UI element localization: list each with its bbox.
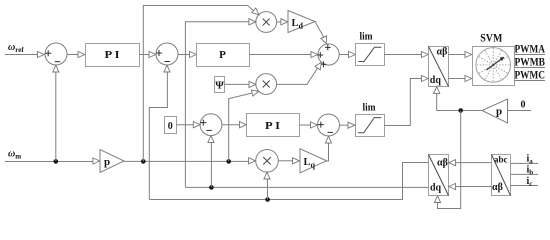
multiplier M2 (ωe x psi) [256, 74, 277, 95]
wire P to J3 [249, 54, 311, 56]
arrowhead angle into top block bottom [434, 87, 440, 94]
wire p2 output angle line [437, 110, 482, 112]
wire 0 to p2 [508, 110, 532, 112]
svg-text:SVM: SVM [480, 31, 502, 45]
block dq to alpha-beta (top) [429, 47, 449, 87]
svg-text:PWMA: PWMA [515, 42, 546, 56]
wire 0 to J4 [177, 124, 194, 126]
block PI2 current regulator [247, 114, 300, 137]
wire ωe line [124, 160, 249, 162]
wire M1 to Ld [277, 21, 282, 23]
wire J3 to lim1 [339, 54, 349, 56]
junction dot ωe to top [141, 159, 146, 164]
wire ωe up to M2 diagonal [229, 93, 253, 161]
svg-text:lim: lim [360, 32, 374, 43]
wire J1 to PI1 [67, 54, 78, 56]
svg-text:P I: P I [105, 49, 120, 61]
svg-text:dq: dq [430, 183, 442, 194]
wire top block to SVM 2 [449, 78, 466, 80]
block abc to alpha-beta [492, 155, 511, 196]
arrowhead J2 minus bottom [164, 65, 170, 72]
wire PI1 to J2 [140, 54, 150, 56]
svg-text:p: p [104, 156, 110, 168]
wire J2 to P [178, 54, 190, 56]
svg-text:0: 0 [168, 121, 173, 132]
block alpha-beta to dq (bottom) [429, 155, 449, 196]
wire J4 to PI2 [222, 124, 240, 126]
junction dot ωm branch [54, 159, 59, 164]
summing junction J4 [200, 114, 222, 136]
wire Lq to J5 bottom [327, 143, 329, 161]
wire ωref input [5, 54, 38, 56]
summing junction J3 [318, 44, 339, 65]
wire psi to M2 [225, 83, 250, 85]
svg-text:abc: abc [494, 156, 508, 166]
junction dot angle [458, 108, 463, 113]
block psi (flux) [215, 77, 225, 93]
multiplier M3 (ωe x iq) [256, 150, 279, 173]
multiplier M1 (ωe x id) [256, 12, 277, 33]
wire ia input [511, 162, 539, 164]
svg-text:P I: P I [265, 120, 280, 132]
wire id to M1 left [185, 22, 249, 188]
block lim1 saturation [356, 44, 385, 66]
block zero reference [165, 117, 177, 134]
wire abc block to bottom block 2 [455, 186, 491, 188]
wire M2 to J3 bottom [277, 68, 318, 84]
wire iq feedback rail [149, 163, 428, 200]
block P [197, 44, 250, 67]
gain triangle p2 (pointing left) [482, 99, 508, 123]
svg-text:P: P [219, 49, 226, 61]
svg-text:αβ: αβ [492, 182, 503, 193]
arrowhead J5 minus bottom [325, 136, 331, 143]
wire angle down to bottom block [438, 111, 461, 209]
wire ib input [511, 173, 539, 175]
arrowhead J4 minus bottom [208, 136, 214, 143]
wire id feedback rail [185, 186, 428, 188]
svg-text:lim: lim [363, 103, 377, 114]
wire abc block to bottom block 1 [455, 162, 491, 164]
svg-text:Ψ: Ψ [215, 80, 224, 92]
wire ic input [511, 185, 539, 187]
wire PWMA output [515, 54, 546, 56]
wire PI2 to J5 [300, 124, 311, 126]
summing junction J1 [45, 43, 67, 65]
gain triangle p (pole pairs) [100, 150, 124, 173]
wire ωm input [5, 161, 93, 163]
block lim2 saturation [356, 115, 385, 137]
wire ωm feedback up to J1 [55, 72, 57, 161]
svg-text:0: 0 [521, 100, 526, 111]
svg-text:PWMB: PWMB [515, 55, 546, 69]
svg-text:dq: dq [430, 75, 442, 86]
wire iq up to M3 bottom [267, 179, 269, 200]
block SVM [473, 47, 515, 86]
wire PWMB output [515, 67, 546, 69]
wire top block to SVM 1 [449, 54, 466, 56]
svg-text:PWMC: PWMC [515, 68, 546, 82]
svg-text:αβ: αβ [437, 47, 448, 58]
wire id up to J4 minus [210, 142, 212, 187]
gain triangle Lq [300, 149, 327, 173]
SVM voltage vector arrow [487, 59, 502, 70]
wire lim2 to top block lower input [385, 79, 422, 126]
wire angle up to top block [436, 93, 438, 110]
wire PWMC output [515, 80, 546, 82]
wire ωe up to top rail [143, 6, 253, 162]
wire Ld to J3 top [315, 22, 324, 38]
wire J2 minus feedback jog [149, 72, 167, 200]
block PI1 speed regulator [86, 44, 140, 67]
wire J5 to lim2 [340, 124, 349, 126]
junction dot ωe to psi mult [226, 159, 231, 164]
junction dot id to J4 [209, 185, 214, 190]
gain triangle Ld [288, 11, 315, 33]
wire lim1 to dq-ab block [384, 54, 422, 56]
svg-text:αβ: αβ [437, 158, 448, 169]
SVM space vector circle [476, 48, 511, 83]
wire M3 to Lq [278, 160, 293, 162]
svg-text:p: p [496, 106, 502, 118]
junction dot iq to M3 [265, 197, 270, 202]
summing junction J5 [318, 114, 340, 136]
summing junction J2 [156, 43, 178, 65]
